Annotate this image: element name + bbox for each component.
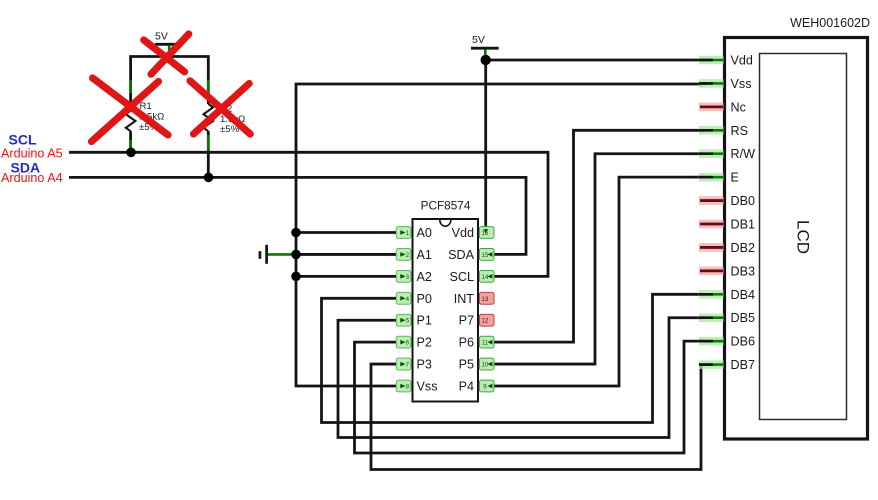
LCD module WEH001602D body: [725, 16, 871, 439]
svg-text:E: E: [731, 171, 739, 185]
wire R1 bottom lead to SCL: [129, 131, 132, 152]
wire net P6 to LCD RS: [490, 130, 707, 342]
svg-text:DB1: DB1: [731, 218, 756, 232]
svg-text:A2: A2: [417, 270, 432, 284]
wire R2 bottom lead green part: [207, 135, 210, 151]
pin 1 box A0: [396, 227, 411, 239]
svg-text:SCL: SCL: [450, 270, 475, 284]
svg-text:P6: P6: [459, 336, 474, 350]
svg-text:5V: 5V: [472, 34, 485, 46]
svg-text:P5: P5: [459, 358, 474, 372]
svg-text:DB7: DB7: [731, 358, 756, 372]
node GND/A1 junction: [291, 250, 301, 260]
pin E terminal (connected): [699, 173, 724, 182]
svg-text:WEH001602D: WEH001602D: [790, 16, 870, 30]
node GND/A2 junction: [291, 272, 301, 282]
ground symbol: [260, 245, 267, 264]
pin 13 box INT: [479, 292, 494, 304]
pin 10 box P5: [479, 358, 494, 370]
svg-text:5: 5: [406, 318, 410, 325]
svg-text:SDA: SDA: [448, 248, 474, 262]
pin Vss terminal (connected): [699, 79, 724, 88]
node GND/A0 junction: [291, 228, 301, 238]
no-connect cross over resistor R2: [190, 81, 250, 134]
pin RS terminal (connected): [699, 126, 724, 135]
wire net SDA (Arduino A4 to PCF pin 15): [69, 177, 526, 254]
pin Nc terminal (not connected): [699, 103, 724, 112]
pin 5 box P1: [396, 314, 411, 326]
svg-text:DB3: DB3: [731, 264, 756, 278]
wire net P0 to DB4: [322, 294, 707, 422]
no-connect cross over 5V supply: [144, 34, 189, 74]
pin 12 box P7: [479, 314, 494, 326]
wire net P3 to DB7: [371, 364, 706, 469]
svg-text:P4: P4: [459, 380, 474, 394]
svg-text:DB0: DB0: [731, 194, 756, 208]
pin DB1 terminal (not connected): [699, 220, 724, 229]
pin DB2 terminal (not connected): [699, 243, 724, 252]
svg-text:9: 9: [483, 384, 487, 391]
wire net P4 to LCD E: [490, 177, 707, 386]
svg-text:P7: P7: [459, 314, 474, 328]
svg-text:5V: 5V: [155, 31, 168, 43]
wire net GND bus (LCD Vss, A0, A1, A2, PCF Vss): [296, 84, 706, 386]
svg-text:4: 4: [406, 296, 410, 303]
no-connect cross over resistor R1: [92, 78, 169, 142]
svg-text:P0: P0: [417, 292, 432, 306]
svg-text:Vdd: Vdd: [731, 54, 753, 68]
svg-text:A1: A1: [417, 248, 432, 262]
pin DB5 terminal (connected): [699, 313, 724, 322]
power 5V supply (logic): [471, 34, 499, 56]
pin 14 box SCL: [479, 270, 494, 282]
svg-text:Nc: Nc: [731, 100, 746, 114]
svg-text:PCF8574: PCF8574: [421, 199, 471, 213]
node 5V branch junction: [481, 55, 491, 65]
svg-text:DB5: DB5: [731, 311, 756, 325]
svg-text:RS: RS: [731, 124, 749, 138]
wire net P2 to DB6: [355, 341, 707, 453]
wire net SCL (Arduino A5 to PCF pin 14): [69, 152, 548, 276]
svg-text:Arduino A4: Arduino A4: [1, 171, 63, 185]
pin 8 box Vss: [396, 380, 411, 392]
pin 16 box Vdd: [479, 227, 494, 239]
svg-text:12: 12: [481, 318, 488, 325]
IC U1 PCF8574 body: [413, 199, 479, 402]
svg-text:P1: P1: [417, 314, 432, 328]
svg-text:11: 11: [482, 340, 489, 347]
pin DB6 terminal (connected): [699, 337, 724, 346]
svg-text:7: 7: [406, 362, 410, 369]
svg-text:13: 13: [481, 296, 488, 303]
pin 4 box P0: [396, 292, 411, 304]
pin DB3 terminal (not connected): [699, 267, 724, 276]
node SDA / R2 junction: [204, 173, 214, 183]
pin 3 box A2: [396, 270, 411, 282]
wire R1 top lead (green): [129, 80, 132, 93]
pin 6 box P2: [396, 336, 411, 348]
svg-text:LCD: LCD: [794, 220, 813, 254]
wire net P1 to DB5: [338, 318, 706, 438]
svg-text:10: 10: [481, 362, 488, 369]
wire ground stub (green): [268, 253, 294, 256]
resistor R2 1.5kΩ ±5%: [204, 104, 246, 135]
svg-text:DB6: DB6: [731, 335, 756, 349]
pin Vdd terminal (connected): [699, 56, 724, 65]
svg-text:2: 2: [406, 252, 410, 259]
pin 2 box A1: [396, 249, 411, 261]
svg-text:1: 1: [406, 230, 410, 237]
svg-text:8: 8: [406, 384, 410, 391]
pin 11 box P6: [479, 336, 494, 348]
svg-text:6: 6: [406, 340, 410, 347]
wire net 5V to PCF Vdd and LCD Vdd: [486, 55, 706, 227]
svg-text:14: 14: [481, 274, 488, 281]
svg-text:3: 3: [406, 274, 410, 281]
pin 7 box P3: [396, 358, 411, 370]
wire R2 bottom lead to SDA: [207, 131, 210, 177]
pin DB0 terminal (not connected): [699, 196, 724, 205]
wire net P5 to LCD R/W: [490, 154, 707, 364]
svg-text:SCL: SCL: [9, 132, 37, 148]
pin DB7 terminal (connected): [699, 360, 724, 369]
pin 15 box SDA: [479, 249, 494, 261]
power 5V supply (pull-ups, crossed out): [155, 31, 176, 57]
svg-text:Vss: Vss: [417, 380, 438, 394]
wire R2 top lead (green): [207, 80, 210, 93]
pin DB4 terminal (connected): [699, 290, 724, 299]
node SCL / R1 junction: [126, 148, 136, 158]
svg-text:Vdd: Vdd: [452, 226, 474, 240]
svg-text:DB2: DB2: [731, 241, 756, 255]
pin R/W terminal (connected): [699, 149, 724, 158]
svg-text:P3: P3: [417, 358, 432, 372]
svg-text:DB4: DB4: [731, 288, 756, 302]
resistor R1 1.5kΩ ±5%: [126, 101, 165, 133]
pin 9 box P4: [479, 380, 494, 392]
svg-text:A0: A0: [417, 226, 432, 240]
svg-text:15: 15: [481, 252, 488, 259]
wire R1 bottom lead green part: [129, 140, 132, 149]
svg-text:Vss: Vss: [731, 77, 752, 91]
svg-text:INT: INT: [454, 292, 475, 306]
svg-text:P2: P2: [417, 336, 432, 350]
svg-text:R/W: R/W: [731, 147, 756, 161]
wire 5V rail to R1/R2 tops: [131, 57, 209, 105]
